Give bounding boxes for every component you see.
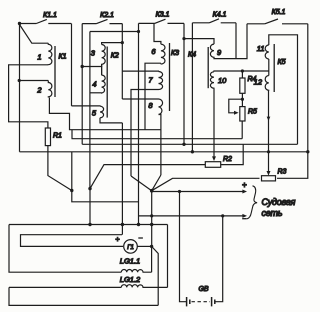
resistor R2 xyxy=(205,162,220,168)
coil winding 2 xyxy=(48,81,52,98)
wire: coil2 top feed xyxy=(19,80,48,82)
wire: slant x=131 to fan xyxy=(131,176,152,191)
wire: R1 bottom slant to dot xyxy=(48,146,72,191)
wire: GB minus riser xyxy=(215,216,223,302)
wire: dot down to LG1.1 line xyxy=(151,246,153,272)
wire: coil9 bottom to K5.1 moving xyxy=(214,24,247,59)
node (x=90 slant junction) xyxy=(88,187,91,190)
wire: y=31.5 link (x=90 top to K3.1 moving) xyxy=(90,31,139,33)
resistor R5 xyxy=(240,107,245,121)
coil winding 11 xyxy=(265,45,269,59)
wire: minus line to ship network xyxy=(139,215,244,217)
wire: coil7 top feed from K2 rail xyxy=(122,70,158,72)
wire: x=90 down to bottom bus xyxy=(89,189,91,225)
wire: coil2 bottom path to K2/K3 area xyxy=(49,98,160,130)
node (GB right on minus line) xyxy=(221,214,224,217)
svg-text:К3: К3 xyxy=(171,50,179,57)
svg-text:+: + xyxy=(242,180,247,189)
svg-text:R3: R3 xyxy=(278,169,287,176)
wire: R4 leads xyxy=(241,71,243,107)
node (K3 rail to bus-B) xyxy=(182,143,185,146)
coil winding 12 xyxy=(265,76,269,91)
svg-text:К4: К4 xyxy=(188,52,196,59)
wire: coil1 bottom to R1 via left loop xyxy=(9,65,49,128)
node (GB left on plus line) xyxy=(178,190,181,193)
resistor R4 xyxy=(240,78,245,93)
bottom bus y=224.5 xyxy=(9,224,168,226)
bus-C y=151.8 xyxy=(20,151,308,153)
label - (G1) xyxy=(138,237,143,239)
wire: R2 right lead xyxy=(221,144,244,164)
svg-text:11: 11 xyxy=(257,44,265,53)
wire: coil4 bottom to x=90 drop xyxy=(90,92,102,94)
arrow onto R5 xyxy=(234,111,239,115)
wire: K5.1 fixed rail down xyxy=(307,24,309,152)
wire: LG1.2 line / U2 top xyxy=(9,286,121,288)
wire: R5 bottom to line-A xyxy=(241,121,243,139)
wire: coil8 top link xyxy=(122,98,158,100)
wire: K4.1 fixed rail down to coil9 link xyxy=(235,23,237,59)
wire: x=90 long vertical xyxy=(89,32,91,189)
resistor R3 xyxy=(262,176,276,181)
arrow onto R3 xyxy=(267,171,271,176)
node (coil3 feed dot on K2 rail) xyxy=(121,41,124,44)
wire: fan vertical down to G1 xyxy=(151,191,153,247)
node (R4/R5 junction) xyxy=(241,98,244,101)
relay core K2 xyxy=(106,47,108,118)
wire: R2 left lead and slant to x=90 xyxy=(90,165,205,189)
arrow (minus line) xyxy=(242,214,247,218)
wire: inner U (armature loop) xyxy=(21,235,124,247)
coil winding 3 xyxy=(102,45,106,67)
wire: K3.1 fixed rail down xyxy=(183,23,185,144)
coil winding 5 xyxy=(100,106,104,118)
node (K5 rail on bus-C) xyxy=(306,150,309,153)
svg-text:К5: К5 xyxy=(278,59,286,66)
svg-text:4: 4 xyxy=(92,80,96,89)
svg-text:9: 9 xyxy=(217,48,222,57)
wire: coil6 top hook to contact xyxy=(154,23,161,44)
svg-text:R5: R5 xyxy=(248,109,257,116)
wire: x=167.5 riser LG1.2 to bottom bus xyxy=(167,225,169,288)
node (G1 vert on minus line) xyxy=(150,214,153,217)
svg-text:10: 10 xyxy=(218,76,227,85)
coil winding 1 xyxy=(48,43,52,65)
coil winding 9 xyxy=(210,44,214,57)
node (R4 top dot) xyxy=(241,69,244,72)
inductor LG1.2 xyxy=(121,285,167,288)
contact K4.1 xyxy=(192,19,236,23)
wire: slant from dot to x=158.2 drop xyxy=(152,246,159,305)
coil winding 6 xyxy=(161,44,165,64)
fan junction xyxy=(150,189,154,193)
wire: R5 wiper loop xyxy=(229,99,243,113)
svg-text:7: 7 xyxy=(148,76,153,85)
arrow (plus line) xyxy=(242,190,247,194)
svg-text:LG1.1: LG1.1 xyxy=(120,257,140,266)
contact K5.1 xyxy=(247,19,308,24)
node (G1 output dot) xyxy=(150,245,153,248)
wire: GB plus riser xyxy=(180,192,187,302)
wire: left rail x=19.5 down to bus-C xyxy=(19,24,21,152)
contact K3.1 xyxy=(139,19,185,23)
wire: K2.1 moving rail down, corner right into bus-B xyxy=(81,24,83,145)
wire: coil11 bottom to coil12 top xyxy=(268,59,270,76)
bus-B y=144.3 xyxy=(82,143,297,145)
svg-text:К2.1: К2.1 xyxy=(100,12,114,19)
node (coil12 line on bus-C) xyxy=(267,150,270,153)
svg-text:GB: GB xyxy=(198,286,208,293)
wire: U2 left and bottom xyxy=(9,287,158,305)
brace xyxy=(247,186,257,219)
wire: K3.1 moving vertical down to bottom bus xyxy=(138,23,140,224)
resistor R1 xyxy=(45,128,50,146)
svg-text:R2: R2 xyxy=(223,156,232,163)
node (coil2 feed dot) xyxy=(18,79,21,82)
svg-text:К1: К1 xyxy=(59,54,67,61)
svg-text:6: 6 xyxy=(151,47,156,56)
battery GB xyxy=(187,297,215,306)
svg-text:К2: К2 xyxy=(111,53,119,60)
svg-text:2: 2 xyxy=(36,86,42,95)
svg-text:5: 5 xyxy=(92,109,97,118)
inductor LG1.1 xyxy=(121,269,151,272)
wire: K4.1 moving rail down to bus-C xyxy=(191,23,193,152)
wire: K1.1 fixed rail down, corner right to coil5 feed xyxy=(71,24,73,106)
node (coil4 feed on K2.1 moving rail) xyxy=(81,65,84,68)
wire: stub from coil2 return down to line-A xyxy=(71,130,73,139)
node (K4.1 moving on bus-C) xyxy=(191,150,194,153)
wire: slant from K1.1 node to coil 1 xyxy=(20,25,49,44)
arrow blob mid-line xyxy=(267,117,271,121)
coil winding 10 xyxy=(210,72,214,89)
wire: slant x=160.9 to fan xyxy=(152,175,161,191)
svg-text:Г1: Г1 xyxy=(127,245,134,251)
wire: K2.1 fixed rail down to coil7/coil8 feeds xyxy=(121,24,123,99)
svg-text:LG1.2: LG1.2 xyxy=(120,275,141,284)
relay core K3 xyxy=(169,43,171,111)
contact K2.1 xyxy=(82,19,122,23)
label - (network) xyxy=(242,218,247,220)
svg-text:К3.1: К3.1 xyxy=(156,12,170,19)
node A (K1.1 moving node) xyxy=(18,22,21,25)
coil winding 8 xyxy=(159,99,163,115)
wire: K5 inner loop from bus-B xyxy=(269,35,298,145)
wire: branch from bus-C down (x=71.8) then minus line xyxy=(72,152,139,202)
node (R1/bus-branch junction) xyxy=(70,189,73,192)
arrow onto R2 xyxy=(212,156,216,161)
svg-text:К5.1: К5.1 xyxy=(272,9,286,16)
wire: coil7 bottom to x=131 drop xyxy=(131,90,159,177)
svg-text:сеть: сеть xyxy=(262,208,283,218)
wire: x=122.4 drop to bottom bus xyxy=(121,123,123,235)
svg-text:Судовая: Судовая xyxy=(262,197,296,207)
svg-text:1: 1 xyxy=(37,53,41,62)
wire: R3 left lead from fan corner xyxy=(152,178,260,190)
svg-text:+: + xyxy=(115,235,120,244)
wire: plus line to ship network xyxy=(152,191,244,193)
wire: coil3 top feed xyxy=(102,43,123,45)
wire: outer loop left xyxy=(9,225,121,273)
wire: line from K1 fixed rail to R5 bottom (y=138.7) xyxy=(72,138,243,140)
wire: coil5 bottom to x=122.4 drop xyxy=(100,118,122,123)
relay core K1 xyxy=(54,46,56,97)
svg-text:R1: R1 xyxy=(53,133,62,140)
svg-text:К4.1: К4.1 xyxy=(213,12,227,19)
wire: coil3-coil4 connection xyxy=(101,64,103,75)
relay core K5 xyxy=(273,44,275,92)
wire: feed to coil 4 (y=66.5) xyxy=(82,67,101,76)
node dots on bottom bus xyxy=(88,223,91,226)
svg-text:3: 3 xyxy=(91,49,96,58)
wire: coil6 bottom hook down x=145 xyxy=(145,63,161,130)
wire: coil10 bottom down to R2 wiper arrow xyxy=(213,88,215,157)
svg-text:12: 12 xyxy=(254,78,263,87)
coil winding 4 xyxy=(102,75,106,93)
wire: coil9 top feed xyxy=(184,39,214,45)
wire: R3 right lead up to K5 rail xyxy=(277,152,308,179)
svg-text:8: 8 xyxy=(148,101,153,110)
wire: feed to coil 5 top (y=105.9) xyxy=(72,105,101,107)
wire: G1 right to dot xyxy=(137,245,151,247)
generator G1 xyxy=(124,240,138,254)
wire: y=71 line coil10-R4-coil12 xyxy=(214,70,269,73)
wire: coil8 bottom to x=160.9 drop xyxy=(159,115,161,176)
svg-text:К1.1: К1.1 xyxy=(43,12,57,19)
relay core K4 xyxy=(207,47,209,88)
node (coil9 feed dot) xyxy=(182,37,185,40)
contact K1.1 xyxy=(20,19,72,23)
wire: coil12 bottom long drop to R3 xyxy=(268,91,270,172)
coil winding 7 xyxy=(159,72,163,90)
node (K3.1 moving feed) xyxy=(137,30,140,33)
